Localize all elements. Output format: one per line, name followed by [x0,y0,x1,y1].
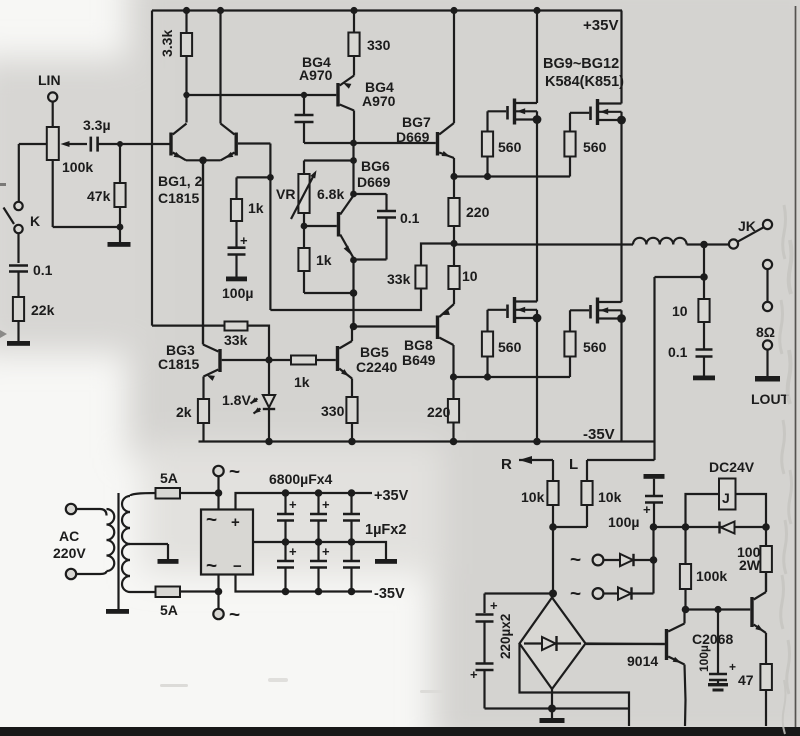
capacitor filter col1 [277,493,297,592]
svg-text:-35V: -35V [583,426,615,443]
inductor L1 [633,238,687,245]
net +35V psu label [374,488,409,504]
node BG3 base [265,356,272,363]
svg-text:JK: JK [738,218,756,234]
svg-text:C1815: C1815 [158,190,199,206]
node BG6 col [350,191,357,198]
diode sense2 [570,560,654,605]
wire sense drop [652,527,654,560]
svg-text:3.3k: 3.3k [159,30,175,57]
svg-text:+: + [643,502,651,517]
net -35V label [583,426,615,443]
wire aux bottom [552,707,629,709]
net BG9~BG12 label [543,56,624,90]
svg-text:+: + [231,514,240,531]
transistor BG5 [338,327,398,398]
ground [226,255,247,282]
svg-text:1.8V: 1.8V [222,392,251,408]
transistor BG8 [354,304,455,377]
transistor 9014 [586,610,686,727]
wire lower gate bus [454,376,571,378]
capacitor comp BG4 [295,95,354,143]
net 6800µFx4 label [269,471,333,487]
resistor 560 g1 [482,111,522,176]
svg-text:+: + [289,544,297,559]
LED 1.8V [222,360,275,442]
svg-text:0.1: 0.1 [400,210,420,226]
resistor 10k L [553,481,622,527]
svg-text:~: ~ [570,584,581,605]
node bridge top [549,590,557,598]
fuse 5A bottom [156,587,181,619]
wire [235,221,237,247]
preset VR 6.8k [276,169,344,219]
svg-text:BG9~BG12: BG9~BG12 [543,56,619,72]
svg-text:+: + [240,233,248,248]
wire BG2 base [238,142,271,144]
ground 0V [375,559,397,564]
bridge rectifier block [201,510,253,578]
node relay tap [682,523,690,531]
capacitor 3.3µ [83,117,111,152]
capacitor filter col2 [310,493,330,592]
svg-text:C2068: C2068 [692,631,733,647]
node AC2 [215,588,223,596]
svg-text:1k: 1k [248,200,264,216]
node BG9 source [533,115,542,124]
node BG11 source [533,314,542,323]
ground [108,227,131,247]
wire [687,243,729,245]
svg-text:1k: 1k [294,374,310,390]
edge artifact [0,183,7,338]
wire output column left [536,120,538,302]
node BG10 source [617,116,626,125]
ground center-tap [158,559,179,564]
ground [7,341,30,346]
ground [693,357,715,381]
capacitor 0.1 BG6 [354,194,420,260]
ground bridge [540,709,565,724]
transistor BG2 [203,11,236,161]
wire relay bus [654,526,767,528]
node 100k bottom [682,606,690,614]
node BG1col-mirror [183,92,189,98]
svg-text:BG6: BG6 [361,158,390,174]
svg-text:2W: 2W [739,557,761,573]
svg-text:~: ~ [229,605,240,626]
ground core [106,609,129,614]
node relay right [762,523,770,531]
svg-text:47k: 47k [87,188,111,204]
svg-text:100µ: 100µ [222,285,253,301]
svg-text:AC: AC [59,528,79,544]
resistor 330 BG5 [321,397,358,442]
node BG4col-BG7base [350,140,357,147]
node f2m [348,538,356,546]
svg-text:R: R [501,456,512,473]
wire R input [519,456,553,481]
svg-text:J: J [722,490,730,506]
transistor BG3 [158,160,269,399]
MOSFET BG11 [488,297,538,323]
wire [485,707,553,709]
node BG7 emitter [450,173,457,180]
capacitor 100µ tail [222,233,253,301]
node rail-330 [348,438,356,446]
svg-text:100k: 100k [696,568,727,584]
resistor 2k [176,399,209,442]
svg-text:+35V: +35V [583,17,618,34]
node rail-BG11 [533,438,541,446]
resistor 330 top [348,11,390,76]
relay J DC24V [686,459,767,527]
MOSFET BG9 [488,11,538,125]
svg-text:+: + [289,497,297,512]
svg-text:8Ω: 8Ω [756,324,775,340]
wire [217,575,219,592]
diode relay [720,522,735,534]
net +35V label [583,17,618,34]
capacitor 220µx2 b [470,614,513,709]
wire [304,271,354,293]
node zobel tap [700,273,708,281]
resistor 560 g4 [564,310,606,377]
node emitters BG1,2 [199,157,207,165]
svg-text:K: K [30,213,40,229]
node rail-BG9 [533,7,540,14]
svg-text:+: + [729,660,736,674]
svg-text:C1815: C1815 [158,356,199,372]
terminal AC bottom [66,569,100,579]
MOSFET BG12 [570,298,622,324]
wire [187,94,305,96]
node f1b [315,588,323,596]
wire aux left [520,644,630,727]
wire output [454,243,633,245]
svg-text:6800µFx4: 6800µFx4 [269,471,333,487]
node output-JK [700,241,708,249]
resistor 3.3k [159,11,192,123]
resistor 33k fb [270,244,454,311]
wire [53,160,120,227]
node f0b [282,588,290,596]
scan right edge line [795,6,797,727]
wire [620,319,622,442]
wire -35V rail [199,440,655,442]
node VR tap [350,157,357,164]
svg-text:D669: D669 [357,174,391,190]
terminal LIN [38,72,61,127]
capacitor 220µx2 a [476,598,499,663]
resistor 1k tail [231,199,264,221]
net 1µFx2 label [365,522,406,538]
svg-text:1µFx2: 1µFx2 [365,522,406,538]
wire base drop [269,144,271,311]
svg-text:3.3µ: 3.3µ [83,117,111,133]
capacitor 0.1 input [9,262,53,278]
transistor C2068 [692,572,766,664]
node rail-BG7 [450,7,457,14]
wire [304,161,354,175]
svg-text:−: − [233,558,242,575]
node sense [650,556,658,564]
svg-text:-35V: -35V [374,586,405,602]
terminal spk- [763,302,772,311]
wire feedback drop [151,11,153,326]
capacitor filter col3 [343,493,360,592]
node rail-330 [350,7,357,14]
resistor 220 upper [448,177,489,244]
wire [686,608,751,610]
node feedback tap [267,174,274,181]
svg-text:33k: 33k [224,332,248,348]
wire [552,527,554,592]
resistor 47k [87,144,126,227]
wire L-sense takeoff [655,277,705,460]
resistor 1k coupling [269,356,336,391]
svg-text:+: + [322,544,330,559]
svg-text:22k: 22k [31,302,55,318]
wire [536,318,538,442]
node AC1 [215,489,223,497]
wire [17,321,19,341]
resistor 10 bias [448,244,477,305]
node BG12 source [617,314,626,323]
wire [766,350,768,376]
node rail-220 [450,438,458,446]
node vr1k-junction [350,289,358,297]
svg-text:~: ~ [229,462,240,483]
wire [17,233,19,263]
svg-text:C2240: C2240 [356,359,397,375]
transistor BG6 [304,158,391,260]
svg-text:L: L [569,456,578,473]
wire [66,143,87,145]
resistor 1k bias [298,226,331,271]
net 8Ω label [756,324,775,340]
capacitor 100µ C2068 [697,610,736,692]
svg-text:10: 10 [672,303,688,319]
svg-text:BG1, 2: BG1, 2 [158,173,203,189]
wire [19,144,47,201]
resistor 33k bias [152,322,269,361]
svg-text:B649: B649 [402,352,436,368]
wire tail [202,160,204,344]
node A input [117,141,123,147]
svg-text:+: + [470,667,478,682]
wire 220µ feed [485,594,554,614]
diode sense1 [570,550,654,571]
terminal AC top [66,504,100,514]
svg-text:9014: 9014 [627,653,658,669]
svg-text:330: 330 [321,403,345,419]
svg-text:560: 560 [498,139,522,155]
scan edge streaks [780,205,792,734]
svg-text:LIN: LIN [38,72,61,88]
svg-text:5A: 5A [160,602,178,618]
ground LOUT [751,376,790,407]
node f0m [282,538,290,546]
node BG8 col [450,373,457,380]
svg-text:5A: 5A [160,470,178,486]
node C2068 base tap [714,606,721,613]
wire [352,161,354,195]
svg-text:330: 330 [367,37,391,53]
net L label [569,456,578,473]
wire [352,293,354,327]
resistor 47 [738,664,772,726]
svg-text:D669: D669 [396,129,430,145]
terminal rect-ac2 [213,592,240,627]
wire output column right [620,120,622,302]
bridge diamond [520,598,586,690]
resistor 100k [680,527,727,610]
svg-text:K584(K851): K584(K851) [545,74,624,90]
svg-text:A970: A970 [299,67,333,83]
terminal LOUT [763,340,772,349]
capacitor 100µ prot [608,496,663,530]
svg-text:10k: 10k [521,489,545,505]
svg-text:10: 10 [462,268,478,284]
node rail-3.3k [183,7,190,14]
node 47k-bottom [117,224,124,231]
resistor 10 zobel [672,277,710,349]
svg-text:~: ~ [206,510,217,531]
svg-text:560: 560 [583,139,607,155]
svg-text:+: + [490,598,498,613]
node 10k join [549,523,557,531]
capacitor 0.1 zobel [668,344,713,360]
wire [98,143,170,145]
transistor BG7 [354,11,454,177]
node f2t [348,489,356,497]
fuse 5A top [156,470,181,499]
svg-text:VR: VR [276,186,295,202]
net AC 220V label [53,528,86,561]
svg-text:~: ~ [570,550,581,571]
wire center tap [130,544,168,559]
svg-text:100µ: 100µ [608,514,639,530]
wire upper gate bus [454,175,570,177]
wire [766,269,768,302]
node f1m [315,538,323,546]
svg-text:220µx2: 220µx2 [498,614,513,659]
node f1t [315,489,323,497]
ground prot [644,474,665,495]
resistor 22k [13,297,55,321]
svg-text:~: ~ [206,556,217,577]
wire +out [236,493,373,510]
transistor BG1 [158,124,203,207]
wire [352,143,354,161]
svg-text:0.1: 0.1 [33,262,53,278]
svg-text:33k: 33k [387,271,411,287]
svg-text:560: 560 [583,339,607,355]
wire -out [236,575,373,592]
svg-text:100µ: 100µ [697,645,711,672]
wire [217,493,219,510]
scan smudges [160,678,444,693]
svg-text:+: + [322,497,330,512]
net R label [501,456,512,473]
wire bridge out [586,642,665,645]
wire bridge top [552,592,554,598]
terminal spk+ [763,260,772,269]
wire +35V top rail [152,9,622,11]
wire [180,492,219,494]
svg-text:10k: 10k [598,489,622,505]
node bridge bottom [548,705,556,713]
svg-text:DC24V: DC24V [709,459,755,475]
svg-text:1k: 1k [316,252,332,268]
wire bridge neg [551,689,553,709]
wire [17,273,19,298]
svg-text:0.1: 0.1 [668,344,688,360]
node g3 tap [484,373,491,380]
transistor BG4 [299,54,396,143]
wire [703,245,705,278]
node prot-cap [650,523,658,531]
svg-text:BG7: BG7 [402,114,431,130]
svg-text:220: 220 [466,204,490,220]
switch JK [729,218,772,249]
node f2b [348,588,356,596]
svg-text:+35V: +35V [374,488,409,504]
svg-text:2k: 2k [176,404,192,420]
net -35V psu label [374,586,405,602]
svg-text:LOUT: LOUT [751,391,790,407]
svg-text:100k: 100k [62,159,93,175]
svg-text:560: 560 [498,339,522,355]
scan bottom border [0,727,800,736]
switch K [4,202,41,233]
MOSFET BG10 [570,11,622,126]
node rail-BG2col [217,7,224,14]
wire [303,213,305,226]
node rail-LED [265,438,273,446]
transformer secondary [122,493,157,592]
svg-text:220V: 220V [53,545,86,561]
wire 0V [253,542,386,559]
node BG5col-BG8base [350,323,358,331]
wire L input [587,460,655,481]
terminal rect-ac1 [213,462,240,493]
resistor 220 lower [427,377,459,442]
node BG4 base [301,92,307,98]
node bias node upper [450,240,457,247]
svg-text:220: 220 [427,404,451,420]
resistor 10k R [521,481,559,527]
transformer primary [100,509,114,574]
resistor 100 2W [737,527,772,591]
potentiometer 100k [47,127,94,175]
wire [180,590,219,592]
wire [352,260,354,293]
svg-text:6.8k: 6.8k [317,186,344,202]
svg-text:BG5: BG5 [360,344,389,360]
svg-text:BG8: BG8 [404,337,433,353]
transformer core [117,493,119,609]
svg-text:47: 47 [738,672,754,688]
node g1 tap [484,173,491,180]
node BG6 emitter [350,257,357,264]
wire [237,177,271,199]
node BG6 base [301,223,308,230]
svg-text:A970: A970 [362,93,396,109]
resistor 560 g3 [482,310,522,377]
resistor 560 g2 [564,113,606,177]
